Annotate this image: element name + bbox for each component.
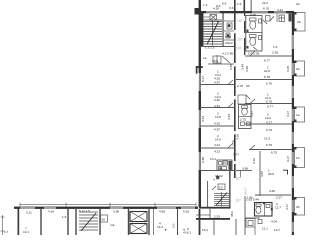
svg-text:4.13: 4.13 [214,150,220,154]
fixture: toilet mid [242,106,248,109]
svg-text:6.78: 6.78 [264,75,270,79]
svg-text:3.38: 3.38 [201,157,205,163]
wall: left exterior wall of vertical wing [199,0,201,207]
svg-text:3.23: 3.23 [201,116,205,122]
svg-text:4.87: 4.87 [260,171,264,177]
svg-text:4.60: 4.60 [269,189,275,193]
svg-text:14.5: 14.5 [215,138,221,142]
svg-text:29: 29 [297,20,301,24]
svg-text:35.02: 35.02 [215,174,223,178]
fixture: toilet top stall 1 [250,18,257,21]
svg-text:2.0: 2.0 [172,223,176,228]
partition: right column room walls [245,55,292,57]
svg-text:1.3 1.5: 1.3 1.5 [205,46,215,50]
dimension ticks far left bottom [2,215,4,235]
stairs: bottom wing arrow [81,213,96,231]
svg-text:3.23: 3.23 [227,114,231,120]
svg-text:107: 107 [236,177,242,181]
kitchen block (x 216-233, y 159-171) [217,160,232,171]
svg-text:2a: 2a [296,67,300,71]
svg-text:1a: 1a [296,113,300,117]
svg-text:6.76: 6.76 [266,100,272,104]
door marks bathroom top [253,47,257,50]
svg-text:4.40: 4.40 [214,98,220,102]
hallway closet above mid bath [238,95,246,104]
stairs: upper stairwell treads [204,20,223,46]
svg-text:10.1: 10.1 [23,230,29,234]
svg-text:2b: 2b [296,205,300,209]
svg-text:3.16: 3.16 [252,158,256,164]
window openings top wall [206,12,220,14]
svg-text:2a: 2a [296,2,300,6]
bathroom block bottom (x 254-272, y 202-216) [255,203,273,217]
radiator box 30 [101,215,108,222]
svg-text:1a: 1a [203,56,207,60]
svg-text:4.52: 4.52 [214,122,220,126]
stairwell 2 walls [207,181,209,207]
svg-text:4.2 2.90: 4.2 2.90 [222,52,233,56]
closet in top right room [266,16,271,22]
svg-text:3.25: 3.25 [250,13,256,17]
svg-text:13.7: 13.7 [274,228,280,232]
svg-text:3.11: 3.11 [26,211,32,215]
fixture: sink mid [241,122,245,126]
window openings bottom wing top wall [20,207,35,209]
svg-text:16.1: 16.1 [202,228,208,232]
svg-text:1.30: 1.30 [225,35,231,39]
svg-text:3.47: 3.47 [250,111,254,117]
entry hall partition [216,55,218,64]
svg-text:0.6: 0.6 [216,4,221,8]
svg-text:3.15: 3.15 [286,66,290,72]
wall: top exterior wall of bottom wing [14,207,198,209]
svg-text:14.2: 14.2 [265,116,271,120]
balcony 4 right [295,148,305,168]
svg-text:21.9: 21.9 [264,137,270,141]
stairs: bottom wing stair treads [79,212,98,230]
balcony 1 right [295,13,306,32]
svg-text:7.35: 7.35 [232,140,236,146]
partition: room below stair2 [209,209,211,219]
svg-text:107: 107 [237,38,243,42]
svg-text:4.56: 4.56 [159,210,165,214]
svg-text:4.16: 4.16 [48,210,54,214]
elevator: small box with X upper core [210,15,217,21]
stairs: arrow lower stairwell [216,193,227,206]
dark door jamb marks [247,30,249,33]
svg-text:3.98: 3.98 [242,167,248,171]
dimension line above bottom wing [20,204,196,206]
svg-text:30: 30 [102,218,106,222]
partition above stair 2 [200,170,235,172]
wall: central spine wall [234,0,236,178]
svg-text:12.7: 12.7 [275,206,281,210]
window openings on left wall [199,73,201,91]
machine room partitions right of stair 1 [224,20,234,22]
wall: stairwell 2 bottom wall [199,207,231,209]
svg-text:3: 3 [213,178,215,182]
svg-text:1b: 1b [296,156,300,160]
fixture: sinks right edge [259,19,262,23]
partition: left column room walls [200,84,235,86]
svg-text:3.98: 3.98 [113,210,119,214]
balcony 3 right [295,107,305,122]
svg-text:107: 107 [237,19,243,23]
lower stall row [246,219,255,228]
svg-text:1.7: 1.7 [4,230,9,234]
svg-text:4.97: 4.97 [214,81,220,85]
svg-text:3.36: 3.36 [272,51,278,55]
wall: top exterior wall of vertical wing [199,11,294,13]
svg-text:6.79: 6.79 [266,143,272,147]
svg-text:4.77: 4.77 [266,121,272,125]
svg-text:1.5: 1.5 [237,2,242,6]
svg-text:6.77: 6.77 [267,105,273,109]
svg-text:5.26: 5.26 [183,210,189,214]
balcony 5 right [295,198,305,216]
dark jamb marks bottom bath [263,202,265,204]
fixture: toilet top stall 2 [250,35,257,38]
svg-text:107: 107 [236,199,242,203]
svg-text:▼: ▼ [164,228,167,232]
svg-text:4.57: 4.57 [214,128,220,132]
svg-text:3.48: 3.48 [229,64,233,70]
wall: corner jut on left wall [196,66,203,68]
wall: corridor right wall top [244,13,245,55]
svg-text:1.40: 1.40 [247,196,253,200]
entry marks above lower stairwell [218,184,225,190]
svg-text:4.21: 4.21 [214,143,220,147]
partitions bottom right rooms [245,217,260,219]
svg-text:3.17: 3.17 [286,111,290,117]
svg-text:35.0: 35.0 [230,211,234,217]
svg-text:0.6: 0.6 [222,2,227,6]
svg-text:35.0: 35.0 [212,59,218,63]
svg-text:3.17: 3.17 [286,156,290,162]
door arc marks misc [228,80,233,85]
stairwell 1 walls [201,13,204,47]
svg-text:1.6: 1.6 [62,215,67,219]
svg-text:16.1: 16.1 [185,231,191,235]
svg-text:90: 90 [246,84,250,88]
svg-text:2.75: 2.75 [237,84,243,88]
svg-text:m2: m2 [110,223,115,227]
svg-text:6.79: 6.79 [266,128,272,132]
svg-text:3.41: 3.41 [277,8,283,12]
wall: right exterior wall of vertical wing [292,11,294,235]
svg-text:30.9: 30.9 [268,172,274,176]
window openings right wall [292,35,294,49]
svg-text:5.17: 5.17 [201,76,205,82]
svg-text:35.07: 35.07 [244,187,248,195]
svg-text:10: 10 [219,186,223,190]
bathroom block middle (x 238-251, y 104-128) [239,105,252,129]
corner mark room 30.9 [283,169,288,171]
svg-text:14.5: 14.5 [215,115,221,119]
svg-text:3.48: 3.48 [241,64,245,70]
svg-text:22.0: 22.0 [264,69,270,73]
entry hall marks (x 212-230, y 55-65) [213,56,221,63]
wall: wing left wall lower segment [199,209,201,235]
svg-text:22.2: 22.2 [262,1,268,5]
stairs: lower stairwell treads [214,192,229,207]
svg-text:107: 107 [236,47,242,51]
fixture: toilet bottom [256,204,261,206]
svg-text:2.27: 2.27 [276,196,282,200]
svg-text:1.6: 1.6 [273,45,278,49]
svg-text:3.17: 3.17 [285,204,289,210]
stairs: arrow upper stairwell [207,22,219,45]
svg-text:3.28: 3.28 [245,66,249,72]
svg-text:11.1: 11.1 [262,227,268,231]
svg-text:13.1: 13.1 [210,157,216,161]
svg-text:20m2: 20m2 [225,41,233,45]
elevator: bottom wing shaft 2 [130,224,147,234]
svg-text:14.2: 14.2 [157,225,163,229]
wall: left column lower thick wall [196,218,230,220]
svg-text:6.76: 6.76 [266,82,272,86]
balcony 2 right [295,61,305,76]
bottom wing interior vertical partitions [40,209,42,235]
svg-text:6.76: 6.76 [263,7,269,11]
svg-text:2.75: 2.75 [240,118,246,122]
svg-text:4.51: 4.51 [214,104,220,108]
door gaps in spine [234,30,236,33]
elevator: bottom wing shaft 1 [130,212,147,222]
wall: bay bump on left wall [195,8,200,15]
svg-text:6.75: 6.75 [271,151,277,155]
partition: vertical wall x=260 bottom right block [259,151,261,196]
fixture: sink bottom [266,205,270,208]
svg-text:4.04: 4.04 [271,220,277,224]
svg-text:3.16: 3.16 [236,134,240,140]
svg-text:2.53: 2.53 [214,215,220,219]
wall: left exterior wall of bottom wing [18,208,20,235]
svg-text:6.77: 6.77 [264,59,270,63]
hatched box top right room [279,15,285,22]
svg-text:1.77: 1.77 [233,153,239,157]
partition x=177.5 bottom wing [177,209,179,235]
svg-text:1.2: 1.2 [203,3,208,7]
svg-text:3.3: 3.3 [229,6,234,10]
bathroom block top (x 245-263, y 14-51) [246,16,262,52]
